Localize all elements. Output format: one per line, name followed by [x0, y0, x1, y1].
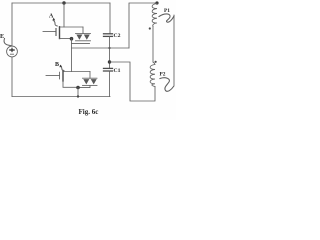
diode DA bottom lead — [72, 42, 90, 44]
node crossing C2 line — [108, 47, 110, 49]
svg-text:C2: C2 — [114, 33, 121, 39]
capacitor C2 bottom plate — [104, 35, 113, 37]
node dot A source — [70, 37, 74, 41]
winding P1 coils — [152, 4, 157, 27]
transistor A channel bar — [59, 27, 61, 39]
diode DB stem top — [89, 72, 91, 79]
wire A output node to right — [72, 47, 130, 49]
wire B drain turn — [63, 71, 90, 73]
source E minus mark — [10, 53, 13, 55]
diode DA triangle left — [76, 35, 82, 40]
svg-text:E: E — [0, 33, 4, 40]
wire right vertical (secondary) — [173, 15, 175, 86]
secondary lead bottom squiggle — [160, 78, 174, 92]
source E circle — [7, 46, 18, 57]
wire C2 to C1 — [109, 36, 111, 68]
transistor A source lead — [60, 38, 72, 40]
transistor B gate lead — [46, 75, 60, 77]
diode DA stem top — [82, 27, 84, 34]
node phase dot P1 — [149, 27, 151, 29]
label A arrow squiggle — [53, 19, 57, 26]
diode DA triangle right — [84, 35, 90, 40]
label A arrowhead — [52, 18, 55, 21]
svg-text:Fig. 6c: Fig. 6c — [79, 108, 99, 116]
transistor A gate bar — [55, 29, 57, 36]
capacitor C1 bottom plate — [104, 70, 113, 72]
svg-text:P2: P2 — [160, 72, 166, 78]
node dot C1 top junction — [108, 60, 111, 63]
wire mid vertical (A source to B) — [71, 39, 73, 72]
diode DB bottom lead — [78, 85, 90, 87]
label E leader curve — [4, 39, 11, 46]
node dot B bottom rail — [77, 95, 79, 97]
wire right riser to P1 — [129, 3, 157, 48]
wire A drain drop — [63, 3, 65, 27]
node dot B output — [76, 86, 80, 90]
wire C1 node to P2 riser — [110, 62, 156, 101]
svg-text:C1: C1 — [114, 68, 121, 74]
label B arrowhead — [59, 65, 62, 68]
transistor A top lead — [60, 26, 84, 28]
transistor B gate bar — [59, 72, 61, 79]
capacitor C2 top plate — [104, 33, 113, 35]
diode DA bottom bar — [76, 40, 91, 42]
diode DB top bar — [83, 77, 98, 79]
label B arrow squiggle — [61, 66, 64, 71]
transistor B source path — [63, 81, 78, 87]
node junction dot top rail (A anode) — [62, 1, 65, 4]
node phase dot P2 — [155, 61, 157, 63]
svg-text:P1: P1 — [164, 8, 170, 14]
transistor A gate lead — [43, 31, 56, 33]
capacitor C1 top plate — [104, 67, 113, 69]
diode DA top bar — [76, 33, 91, 35]
diode DB triangle right — [91, 79, 97, 84]
svg-text:A: A — [49, 14, 54, 20]
winding P2 coils — [150, 62, 155, 87]
node dot P1 top — [155, 1, 158, 4]
source E plus mark — [10, 48, 14, 51]
wire B to bottom rail — [77, 88, 79, 97]
wire left vertical bottom — [11, 57, 13, 97]
svg-text:B: B — [55, 62, 59, 68]
wire bottom rail — [12, 96, 110, 98]
wire left vertical top — [11, 3, 13, 46]
wire P1 to P2 — [152, 27, 154, 63]
wire C1 to bottom rail — [109, 71, 111, 97]
diode DB bottom bar — [83, 84, 98, 86]
secondary lead top squiggle — [159, 14, 174, 22]
diode DB triangle left — [83, 79, 89, 84]
wire top rail left — [12, 2, 110, 4]
wire C2 branch drop — [109, 3, 111, 34]
transistor B channel bar — [62, 71, 64, 82]
